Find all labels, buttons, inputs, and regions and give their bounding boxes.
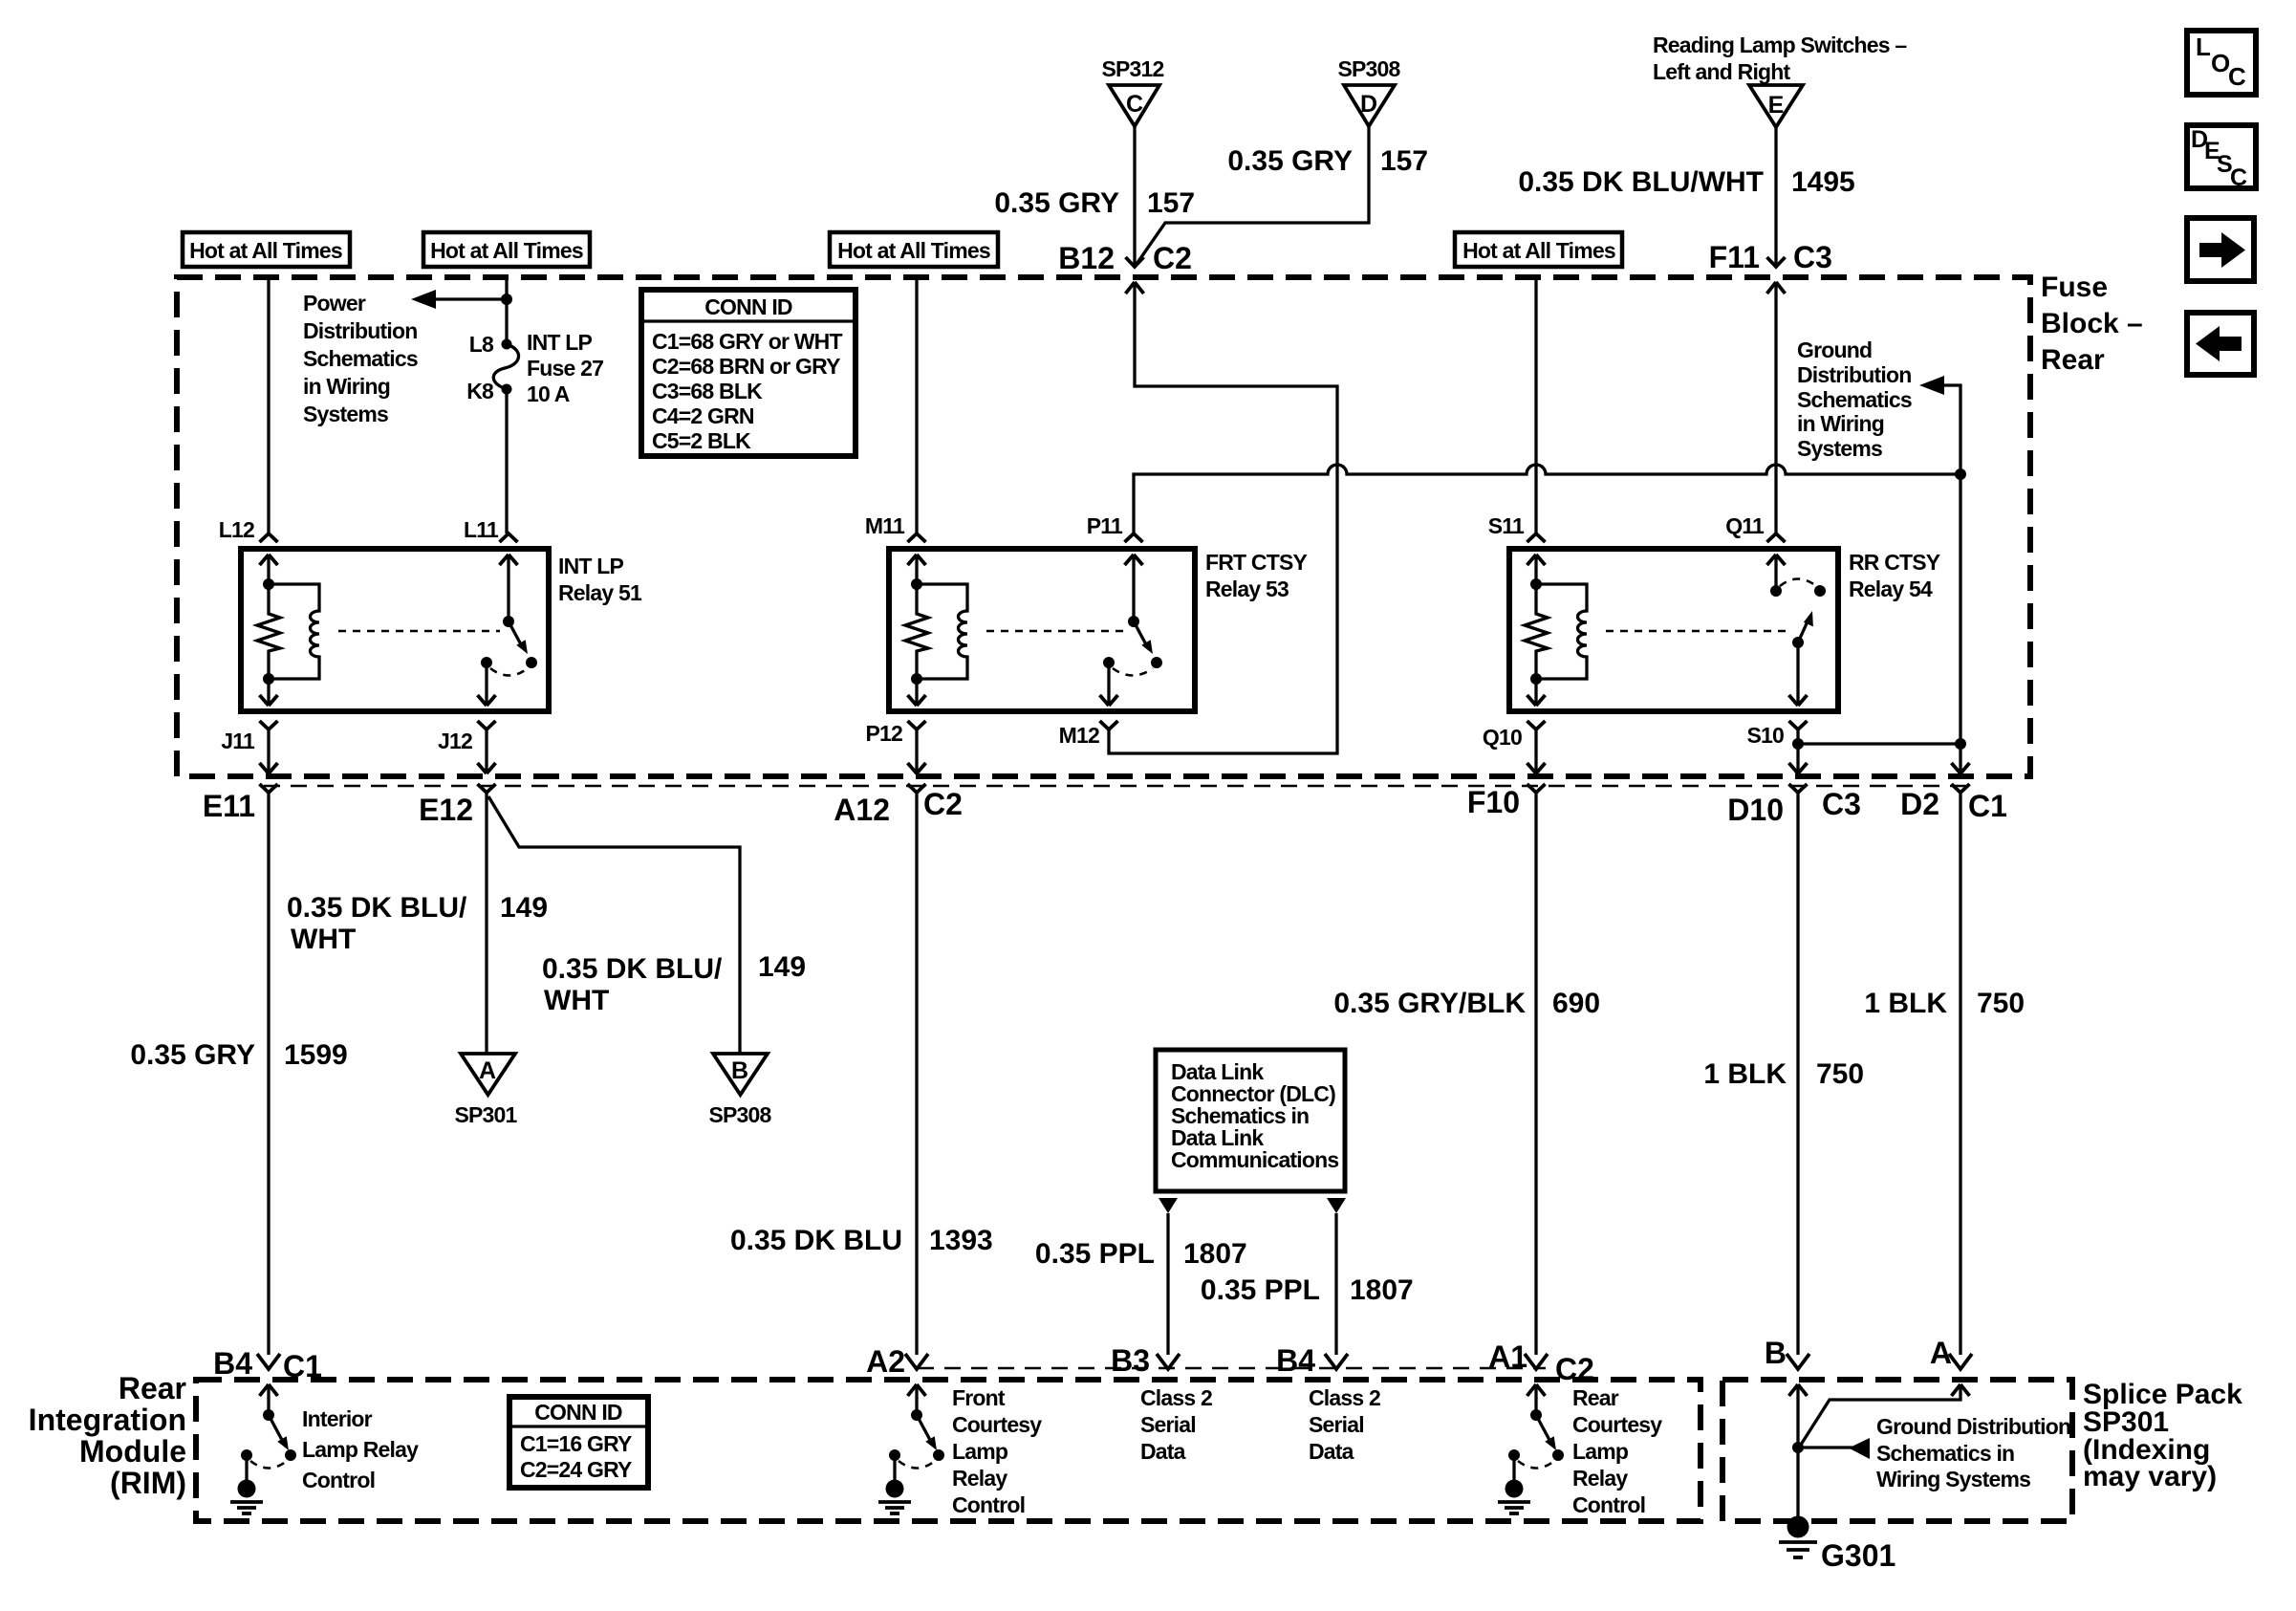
node F11 C3 <box>1709 240 1832 294</box>
wire P12 to boundary <box>915 729 918 771</box>
svg-text:J11: J11 <box>221 729 255 753</box>
svg-text:0.35 GRY/BLK: 0.35 GRY/BLK <box>1333 988 1526 1019</box>
wire D2 branch down to boundary <box>1959 744 1961 771</box>
svg-text:B4: B4 <box>213 1346 252 1381</box>
svg-text:SP312: SP312 <box>1101 56 1163 81</box>
svg-text:A: A <box>479 1057 496 1084</box>
wire S10 to junction and boundary <box>1792 729 1960 771</box>
relay 51 pin J11 terminal <box>221 679 277 753</box>
svg-text:Wiring Systems: Wiring Systems <box>1876 1467 2030 1491</box>
svg-text:0.35 GRY: 0.35 GRY <box>994 187 1119 219</box>
svg-text:0.35 DK BLU/WHT: 0.35 DK BLU/WHT <box>1518 166 1764 198</box>
relay INT LP Relay 51 <box>241 549 642 711</box>
label Ground Distribution Schematics in Wiring Systems (splice) <box>1876 1414 2070 1491</box>
label Rear Integration Module (RIM) <box>29 1371 186 1500</box>
svg-text:149: 149 <box>500 892 548 924</box>
svg-text:A12: A12 <box>834 793 890 827</box>
splice pack box <box>1722 1380 2072 1521</box>
svg-text:C4=2 GRN: C4=2 GRN <box>652 403 754 428</box>
svg-text:Data: Data <box>1140 1439 1186 1464</box>
label Power Distribution Schematics in Wiring Systems <box>303 291 418 426</box>
CONN ID table (RIM) <box>509 1397 648 1488</box>
svg-text:157: 157 <box>1380 145 1428 177</box>
svg-text:Interior: Interior <box>302 1406 373 1431</box>
svg-text:0.35 GRY: 0.35 GRY <box>1227 145 1353 177</box>
relay 53 coil-switch link <box>986 630 1125 633</box>
label 1 BLK 750 (A) <box>1864 988 2025 1019</box>
hot at all times box 1 <box>183 232 350 267</box>
node D2 C1 <box>1900 763 2007 823</box>
svg-text:Distribution: Distribution <box>303 318 417 343</box>
svg-text:C: C <box>2228 62 2246 91</box>
label 0.35 PPL 1807 (B3) <box>1035 1238 1247 1270</box>
svg-text:C2: C2 <box>1555 1352 1594 1386</box>
wire from triangle C to B12 <box>1133 126 1136 267</box>
svg-text:WHT: WHT <box>544 985 609 1016</box>
svg-text:Q11: Q11 <box>1725 513 1765 538</box>
relay 54 coil-switch link <box>1606 630 1789 633</box>
arrow to ground distribution note <box>1919 376 1966 480</box>
label 0.35 GRY/BLK 690 <box>1333 988 1600 1019</box>
wire Q10 to boundary <box>1534 729 1537 771</box>
label SP312 <box>1101 56 1163 81</box>
relay 53 pin P11 terminal <box>1087 513 1143 621</box>
node E12 <box>419 763 495 827</box>
svg-text:149: 149 <box>758 951 806 983</box>
relay 51 coil winding <box>269 584 319 679</box>
svg-text:F10: F10 <box>1467 785 1520 819</box>
svg-text:L: L <box>2196 33 2211 61</box>
arrow to power distribution schematics <box>411 290 512 309</box>
svg-text:C2=24 GRY: C2=24 GRY <box>520 1457 632 1482</box>
splice B wire to ground <box>1792 1384 1804 1518</box>
svg-text:Hot at All Times: Hot at All Times <box>1462 238 1615 263</box>
svg-text:A2: A2 <box>866 1344 905 1379</box>
svg-text:1 BLK: 1 BLK <box>1864 988 1947 1019</box>
relay 51 coil-switch link <box>338 630 500 633</box>
svg-text:Relay: Relay <box>1572 1466 1628 1491</box>
label 0.35 GRY 157 (wire D) <box>1227 145 1428 177</box>
svg-text:Integration: Integration <box>29 1403 186 1437</box>
svg-text:L12: L12 <box>219 517 254 542</box>
svg-text:Reading Lamp Switches –: Reading Lamp Switches – <box>1653 33 1907 57</box>
node E11 <box>203 763 278 823</box>
svg-text:B12: B12 <box>1058 241 1115 275</box>
RIM rear courtesy lamp relay control switch <box>1498 1384 1564 1513</box>
label 0.35 PPL 1807 (B4) <box>1201 1274 1414 1306</box>
wire from triangle D to B12 <box>1135 126 1369 267</box>
svg-text:L11: L11 <box>464 517 499 542</box>
label 0.35 DK BLU/ WHT 149 (SP301 branch) <box>287 892 548 955</box>
wire E11 to RIM B4 <box>267 793 270 1355</box>
CONN ID table (fuse block connectors) <box>641 290 856 456</box>
svg-text:1 BLK: 1 BLK <box>1703 1058 1787 1090</box>
RIM module box <box>196 1380 1700 1521</box>
svg-text:1599: 1599 <box>284 1039 348 1071</box>
svg-text:Systems: Systems <box>1797 436 1882 461</box>
RIM front courtesy lamp relay control switch <box>878 1384 944 1513</box>
svg-text:Relay 51: Relay 51 <box>558 580 642 605</box>
svg-text:in Wiring: in Wiring <box>1797 411 1884 436</box>
fuse INT LP Fuse 27 10 A <box>466 330 603 406</box>
node A1 C2 <box>1488 1339 1594 1396</box>
refer arrow (splice ground note) <box>1798 1438 1870 1459</box>
relay 54 coil resistor <box>1525 578 1548 685</box>
svg-text:C1=68 GRY or WHT: C1=68 GRY or WHT <box>652 329 842 354</box>
relay FRT CTSY Relay 53 <box>889 549 1307 711</box>
svg-text:INT LP: INT LP <box>527 330 592 355</box>
label SP308 (top) <box>1337 56 1400 81</box>
svg-text:D2: D2 <box>1900 787 1939 821</box>
svg-text:INT LP: INT LP <box>558 554 623 578</box>
svg-text:C3=68 BLK: C3=68 BLK <box>652 379 763 403</box>
wire Q11 (from F11 to relay 54) <box>1774 282 1777 533</box>
reference icon forward-arrow <box>2187 218 2254 281</box>
relay 53 switch <box>1103 616 1162 676</box>
wire B4 to DLC <box>1334 1213 1337 1355</box>
svg-text:B: B <box>1765 1336 1787 1370</box>
DLC reference box <box>1156 1050 1345 1191</box>
svg-text:0.35 DK BLU/: 0.35 DK BLU/ <box>287 892 467 924</box>
connector triangle C <box>1109 85 1159 126</box>
svg-text:SP308: SP308 <box>1337 56 1400 81</box>
wire hot feed to fuse <box>505 275 508 344</box>
svg-text:D10: D10 <box>1727 793 1784 827</box>
svg-text:in Wiring: in Wiring <box>303 374 390 399</box>
svg-text:Fuse: Fuse <box>2041 272 2108 303</box>
relay 54 pin S11 terminal <box>1488 513 1546 584</box>
wire E12 to SP301 <box>485 793 487 1054</box>
svg-text:A: A <box>1930 1336 1952 1370</box>
label Splice Pack SP301 (Indexing may vary) <box>2083 1379 2242 1492</box>
relay 54 coil winding <box>1536 584 1587 679</box>
relay 51 coil resistor <box>257 578 280 685</box>
node A (splice) <box>1930 1336 1972 1396</box>
svg-text:C5=2 BLK: C5=2 BLK <box>652 428 751 453</box>
svg-text:C2=68 BRN or GRY: C2=68 BRN or GRY <box>652 354 840 379</box>
svg-text:Control: Control <box>1572 1492 1645 1517</box>
svg-text:Lamp Relay: Lamp Relay <box>302 1437 419 1462</box>
wire J11 to boundary <box>267 729 270 771</box>
svg-text:Class 2: Class 2 <box>1140 1385 1212 1410</box>
svg-text:may vary): may vary) <box>2083 1461 2217 1492</box>
svg-text:C2: C2 <box>923 787 963 821</box>
svg-text:Systems: Systems <box>303 402 388 426</box>
RIM interior lamp relay control switch <box>230 1384 296 1513</box>
relay 53 pin M11 terminal <box>865 513 926 584</box>
svg-text:C1=16 GRY: C1=16 GRY <box>520 1431 632 1456</box>
label Rear Courtesy Lamp Relay Control <box>1572 1385 1662 1517</box>
svg-text:Lamp: Lamp <box>1572 1439 1629 1464</box>
reference icon LOC <box>2187 31 2256 95</box>
relay 51 pin J12 terminal <box>438 663 495 753</box>
svg-text:S11: S11 <box>1488 513 1525 538</box>
wire B12 branch to relay 53 M12 <box>1109 282 1337 753</box>
svg-text:10 A: 10 A <box>527 381 570 406</box>
svg-text:Hot at All Times: Hot at All Times <box>837 238 990 263</box>
hot at all times box 3 <box>830 232 998 267</box>
node B12 C2 <box>1058 241 1192 294</box>
relay 54 pin Q10 terminal <box>1483 679 1546 750</box>
wire right bus down to S10 junction <box>1955 474 1966 750</box>
svg-text:Relay 53: Relay 53 <box>1205 577 1289 601</box>
label 0.35 DK BLU 1393 <box>730 1225 993 1256</box>
connector triangle B SP308 <box>708 1054 771 1127</box>
svg-text:WHT: WHT <box>291 924 356 955</box>
label Fuse Block - Rear <box>2041 272 2143 376</box>
svg-text:L8: L8 <box>469 332 494 357</box>
svg-text:Module: Module <box>79 1434 186 1469</box>
relay 53 coil winding <box>917 584 967 679</box>
label 0.35 GRY 1599 <box>130 1039 347 1071</box>
node D10 C3 <box>1727 763 1861 827</box>
svg-text:K8: K8 <box>466 379 494 403</box>
svg-text:Serial: Serial <box>1309 1412 1364 1437</box>
svg-text:Control: Control <box>302 1468 375 1492</box>
connector triangle A SP301 <box>454 1054 517 1127</box>
wire P11 bus (horizontal with hops) <box>1134 465 1960 533</box>
splice jumper B to A <box>1801 1384 1960 1445</box>
svg-text:Rear: Rear <box>119 1371 186 1405</box>
svg-text:Distribution: Distribution <box>1797 362 1911 387</box>
wire L12 (hot feed to relay 51 coil) <box>267 275 270 533</box>
hot at all times box 2 <box>423 232 590 267</box>
wire from triangle E to F11 <box>1774 127 1777 267</box>
relay 51 switch <box>481 616 537 676</box>
node B4 C1 <box>213 1346 322 1396</box>
svg-text:C1: C1 <box>283 1349 322 1383</box>
svg-text:FRT CTSY: FRT CTSY <box>1205 550 1307 575</box>
connector triangle E <box>1749 85 1803 127</box>
label Front Courtesy Lamp Relay Control <box>952 1385 1042 1517</box>
wire M11 (hot feed to relay 53) <box>915 275 918 533</box>
wire fuse to relay 51 L11 <box>505 389 508 533</box>
hot at all times box 4 <box>1455 232 1622 267</box>
thin in-line connector interface (RIM top) <box>918 1367 1546 1370</box>
relay 53 pin P12 terminal <box>865 679 925 746</box>
wire D2 to splice A <box>1959 793 1961 1355</box>
svg-text:B4: B4 <box>1276 1343 1315 1378</box>
svg-text:0.35 GRY: 0.35 GRY <box>130 1039 255 1071</box>
svg-text:Schematics: Schematics <box>1797 387 1912 412</box>
svg-text:1495: 1495 <box>1791 166 1855 198</box>
svg-text:Rear: Rear <box>2041 344 2105 376</box>
svg-text:Ground: Ground <box>1797 337 1872 362</box>
svg-text:Schematics: Schematics <box>303 346 418 371</box>
svg-text:M12: M12 <box>1059 723 1099 748</box>
relay 54 pin Q11 terminal <box>1725 513 1785 591</box>
node B (splice) <box>1765 1336 1809 1396</box>
label Class 2 Serial Data (B4) <box>1309 1385 1380 1464</box>
svg-text:Ground Distribution: Ground Distribution <box>1876 1414 2070 1439</box>
svg-text:Hot at All Times: Hot at All Times <box>430 238 583 263</box>
relay 54 switch <box>1770 579 1826 649</box>
svg-text:Relay 54: Relay 54 <box>1849 577 1933 601</box>
relay 53 coil resistor <box>905 578 928 685</box>
DLC arrow B3 <box>1159 1198 1178 1213</box>
connector triangle D <box>1344 85 1395 126</box>
svg-text:M11: M11 <box>865 513 905 538</box>
svg-text:Front: Front <box>952 1385 1006 1410</box>
svg-text:0.35 DK BLU/: 0.35 DK BLU/ <box>542 953 723 985</box>
fuse block boundary (dashed) <box>177 277 2030 776</box>
svg-text:C3: C3 <box>1793 240 1832 274</box>
svg-text:Relay: Relay <box>952 1466 1007 1491</box>
wire D10 to splice B <box>1796 793 1799 1355</box>
svg-text:E12: E12 <box>419 793 473 827</box>
wire E12 branch to SP308 <box>488 796 740 1054</box>
svg-text:E: E <box>1768 92 1785 119</box>
svg-text:0.35 PPL: 0.35 PPL <box>1201 1274 1320 1306</box>
svg-text:Schematics in: Schematics in <box>1876 1441 2014 1466</box>
wire F10 to RIM A1 <box>1534 793 1537 1355</box>
wire S11 (hot feed to relay 54) <box>1534 275 1537 533</box>
svg-text:157: 157 <box>1147 187 1195 219</box>
reference icon back-arrow <box>2187 313 2254 375</box>
svg-text:SP308: SP308 <box>708 1102 771 1127</box>
reference icon DESC <box>2187 125 2256 191</box>
svg-text:Hot at All Times: Hot at All Times <box>189 238 342 263</box>
svg-text:CONN ID: CONN ID <box>704 294 792 319</box>
wire B3 to DLC <box>1166 1213 1169 1355</box>
svg-text:Rear: Rear <box>1572 1385 1619 1410</box>
node B3 <box>1111 1343 1180 1378</box>
svg-text:0.35 DK BLU: 0.35 DK BLU <box>730 1225 902 1256</box>
svg-text:0.35 PPL: 0.35 PPL <box>1035 1238 1155 1270</box>
relay 51 pin L11 terminal <box>464 517 517 621</box>
svg-text:690: 690 <box>1552 988 1600 1019</box>
svg-text:Block –: Block – <box>2041 308 2143 339</box>
svg-text:Serial: Serial <box>1140 1412 1196 1437</box>
ground G301 <box>1779 1516 1895 1574</box>
node B4 (DLC) <box>1276 1343 1348 1378</box>
svg-text:C: C <box>2230 164 2247 191</box>
svg-text:Data: Data <box>1309 1439 1354 1464</box>
label 0.35 GRY 157 (wire C) <box>994 187 1195 219</box>
wire J12 to boundary <box>485 729 487 771</box>
svg-text:F11: F11 <box>1709 240 1760 274</box>
svg-text:Lamp: Lamp <box>952 1439 1008 1464</box>
DLC arrow B4 <box>1327 1198 1346 1213</box>
svg-text:SP301: SP301 <box>454 1102 517 1127</box>
wire A12 to RIM A2 <box>915 793 918 1355</box>
svg-text:Left and Right: Left and Right <box>1653 59 1791 84</box>
node A2 <box>866 1344 928 1396</box>
svg-text:C: C <box>1126 91 1143 118</box>
svg-text:Q10: Q10 <box>1483 725 1522 750</box>
relay RR CTSY Relay 54 <box>1509 549 1940 711</box>
thin in-line connector interface (fuse bottom) <box>264 785 1967 788</box>
svg-text:C3: C3 <box>1822 787 1861 821</box>
svg-text:Courtesy: Courtesy <box>1572 1412 1662 1437</box>
svg-text:B: B <box>731 1057 748 1084</box>
label Reading Lamp Switches - Left and Right <box>1653 33 1907 84</box>
svg-text:B3: B3 <box>1111 1343 1150 1378</box>
svg-text:RR CTSY: RR CTSY <box>1849 550 1940 575</box>
svg-text:P12: P12 <box>865 721 902 746</box>
svg-text:C1: C1 <box>1968 789 2007 823</box>
svg-text:P11: P11 <box>1087 513 1123 538</box>
svg-text:750: 750 <box>1977 988 2025 1019</box>
label Ground Distribution Schematics in Wiring Systems (fuse block) <box>1797 337 1912 461</box>
node A12 C2 <box>834 763 963 827</box>
svg-text:Power: Power <box>303 291 366 316</box>
node F10 <box>1467 763 1546 819</box>
label Interior Lamp Relay Control <box>302 1406 419 1492</box>
svg-text:Communications: Communications <box>1171 1147 1338 1172</box>
label 1 BLK 750 (B) <box>1703 1058 1864 1090</box>
relay 51 pin L12 terminal <box>219 517 278 584</box>
svg-text:Courtesy: Courtesy <box>952 1412 1042 1437</box>
svg-text:E11: E11 <box>203 789 255 823</box>
label Class 2 Serial Data (B3) <box>1140 1385 1212 1464</box>
svg-text:750: 750 <box>1816 1058 1864 1090</box>
label 0.35 DK BLU/WHT 1495 <box>1518 166 1854 198</box>
svg-text:(RIM): (RIM) <box>110 1466 186 1500</box>
label 0.35 DK BLU/ WHT 149 (SP308 branch) <box>542 951 806 1016</box>
svg-text:C2: C2 <box>1153 241 1192 275</box>
svg-text:Control: Control <box>952 1492 1025 1517</box>
svg-text:S10: S10 <box>1746 723 1784 748</box>
relay 53 pin M12 terminal <box>1059 663 1118 748</box>
svg-text:G301: G301 <box>1821 1538 1895 1573</box>
svg-text:CONN ID: CONN ID <box>534 1400 622 1425</box>
svg-text:1807: 1807 <box>1183 1238 1247 1270</box>
svg-text:D: D <box>1360 91 1377 118</box>
svg-text:J12: J12 <box>438 729 472 753</box>
relay 54 pin S10 terminal <box>1746 642 1807 748</box>
svg-text:A1: A1 <box>1488 1339 1527 1374</box>
svg-text:Class 2: Class 2 <box>1309 1385 1380 1410</box>
svg-text:1807: 1807 <box>1350 1274 1414 1306</box>
svg-text:1393: 1393 <box>929 1225 993 1256</box>
svg-text:Fuse 27: Fuse 27 <box>527 356 603 381</box>
